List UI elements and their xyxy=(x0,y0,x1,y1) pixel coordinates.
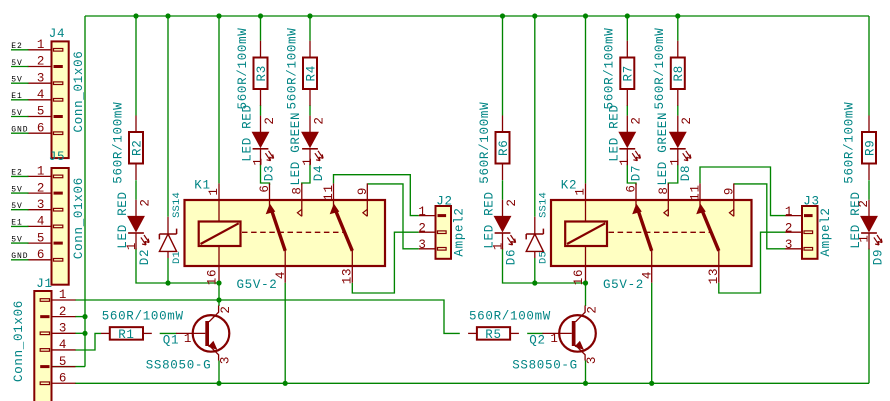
svg-text:R3: R3 xyxy=(255,65,269,81)
svg-text:LED GREEN: LED GREEN xyxy=(289,112,303,186)
svg-text:6: 6 xyxy=(59,371,67,385)
svg-text:560R/100mW: 560R/100mW xyxy=(285,27,299,109)
svg-text:1: 1 xyxy=(125,242,139,250)
svg-text:1: 1 xyxy=(618,157,632,165)
svg-text:6: 6 xyxy=(258,184,272,192)
svg-text:D5: D5 xyxy=(538,251,550,264)
svg-text:D6: D6 xyxy=(505,249,519,265)
svg-text:G5V-2: G5V-2 xyxy=(236,278,277,292)
svg-text:G5V-2: G5V-2 xyxy=(603,278,644,292)
svg-text:1: 1 xyxy=(857,234,871,242)
svg-text:1: 1 xyxy=(184,332,192,346)
svg-text:13: 13 xyxy=(707,268,721,284)
svg-text:560R/100mW: 560R/100mW xyxy=(653,27,667,109)
svg-text:R4: R4 xyxy=(304,65,318,81)
svg-text:5: 5 xyxy=(59,355,67,369)
svg-text:2: 2 xyxy=(785,221,793,235)
svg-text:K2: K2 xyxy=(561,179,577,193)
svg-text:Conn_01x06: Conn_01x06 xyxy=(72,177,86,259)
svg-text:3: 3 xyxy=(218,356,232,364)
svg-text:560R/100mW: 560R/100mW xyxy=(478,102,492,184)
svg-text:LED RED: LED RED xyxy=(240,104,254,161)
svg-text:LED GREEN: LED GREEN xyxy=(656,112,670,186)
svg-text:2: 2 xyxy=(505,198,519,206)
svg-text:2: 2 xyxy=(586,305,600,313)
svg-text:1: 1 xyxy=(37,165,45,179)
svg-text:LED RED: LED RED xyxy=(116,191,130,248)
svg-text:1: 1 xyxy=(491,242,505,250)
svg-text:D9: D9 xyxy=(871,249,885,265)
svg-text:R8: R8 xyxy=(672,65,686,81)
svg-text:1: 1 xyxy=(59,288,67,302)
svg-text:D2: D2 xyxy=(138,249,152,265)
svg-text:D8: D8 xyxy=(679,165,693,181)
svg-text:2: 2 xyxy=(312,116,326,124)
svg-text:560R/100mW: 560R/100mW xyxy=(603,27,617,109)
svg-text:560R/100mW: 560R/100mW xyxy=(469,309,551,323)
svg-text:8: 8 xyxy=(290,186,304,194)
svg-text:LED RED: LED RED xyxy=(607,104,621,161)
svg-text:1: 1 xyxy=(301,157,315,165)
svg-text:8: 8 xyxy=(657,186,671,194)
svg-text:13: 13 xyxy=(340,268,354,284)
svg-text:9: 9 xyxy=(356,187,370,195)
svg-text:560R/100mW: 560R/100mW xyxy=(842,102,856,184)
svg-text:1: 1 xyxy=(37,38,45,52)
svg-text:2: 2 xyxy=(59,305,67,319)
svg-text:1: 1 xyxy=(550,332,558,346)
svg-text:2: 2 xyxy=(680,116,694,124)
svg-text:2: 2 xyxy=(418,221,426,235)
svg-text:3: 3 xyxy=(59,322,67,336)
svg-text:1: 1 xyxy=(669,157,683,165)
svg-text:5: 5 xyxy=(37,231,45,245)
svg-text:5: 5 xyxy=(37,105,45,119)
svg-text:J5: J5 xyxy=(49,150,65,164)
svg-text:3: 3 xyxy=(37,71,45,85)
svg-text:3: 3 xyxy=(585,356,599,364)
svg-text:1: 1 xyxy=(251,157,265,165)
svg-text:J1: J1 xyxy=(36,277,52,291)
svg-text:R5: R5 xyxy=(485,328,501,342)
svg-text:9: 9 xyxy=(722,187,736,195)
svg-text:560R/100mW: 560R/100mW xyxy=(236,27,250,109)
svg-text:560R/100mW: 560R/100mW xyxy=(102,309,184,323)
svg-text:R1: R1 xyxy=(118,328,134,342)
svg-text:3: 3 xyxy=(785,238,793,252)
svg-text:560R/100mW: 560R/100mW xyxy=(111,102,125,184)
svg-text:2: 2 xyxy=(37,181,45,195)
svg-text:4: 4 xyxy=(37,88,45,102)
svg-text:11: 11 xyxy=(688,184,702,200)
svg-text:1: 1 xyxy=(785,205,793,219)
svg-text:Q2: Q2 xyxy=(529,334,545,348)
svg-text:D1: D1 xyxy=(171,251,183,264)
svg-text:4: 4 xyxy=(37,215,45,229)
svg-text:Conn_01x06: Conn_01x06 xyxy=(72,50,86,132)
svg-text:3: 3 xyxy=(418,238,426,252)
svg-text:2: 2 xyxy=(630,116,644,124)
svg-text:R2: R2 xyxy=(130,140,144,156)
svg-text:R6: R6 xyxy=(497,140,511,156)
svg-text:SS14: SS14 xyxy=(538,192,550,218)
svg-text:D4: D4 xyxy=(312,165,326,181)
svg-text:3: 3 xyxy=(37,198,45,212)
svg-text:D3: D3 xyxy=(263,165,277,181)
svg-text:2: 2 xyxy=(138,198,152,206)
svg-text:J2: J2 xyxy=(436,195,452,209)
svg-text:6: 6 xyxy=(37,248,45,262)
svg-text:4: 4 xyxy=(59,338,67,352)
svg-text:R7: R7 xyxy=(622,65,636,81)
svg-text:K1: K1 xyxy=(194,179,210,193)
svg-text:Ampel2: Ampel2 xyxy=(452,207,466,256)
svg-text:D7: D7 xyxy=(629,165,643,181)
svg-text:Ampel2: Ampel2 xyxy=(819,207,833,256)
svg-text:2: 2 xyxy=(219,305,233,313)
svg-text:R9: R9 xyxy=(863,140,877,156)
svg-text:J3: J3 xyxy=(803,195,819,209)
svg-text:2: 2 xyxy=(37,55,45,69)
svg-text:11: 11 xyxy=(322,184,336,200)
svg-text:SS14: SS14 xyxy=(171,192,183,218)
svg-text:SS8050-G: SS8050-G xyxy=(146,359,212,373)
svg-text:2: 2 xyxy=(857,199,871,207)
svg-text:Q1: Q1 xyxy=(163,334,179,348)
svg-text:J4: J4 xyxy=(49,27,65,41)
svg-text:6: 6 xyxy=(37,121,45,135)
svg-text:Conn_01x06: Conn_01x06 xyxy=(12,300,26,382)
svg-text:LED RED: LED RED xyxy=(482,191,496,248)
svg-text:6: 6 xyxy=(624,184,638,192)
svg-text:SS8050-G: SS8050-G xyxy=(512,359,578,373)
svg-text:1: 1 xyxy=(418,205,426,219)
svg-text:2: 2 xyxy=(263,116,277,124)
